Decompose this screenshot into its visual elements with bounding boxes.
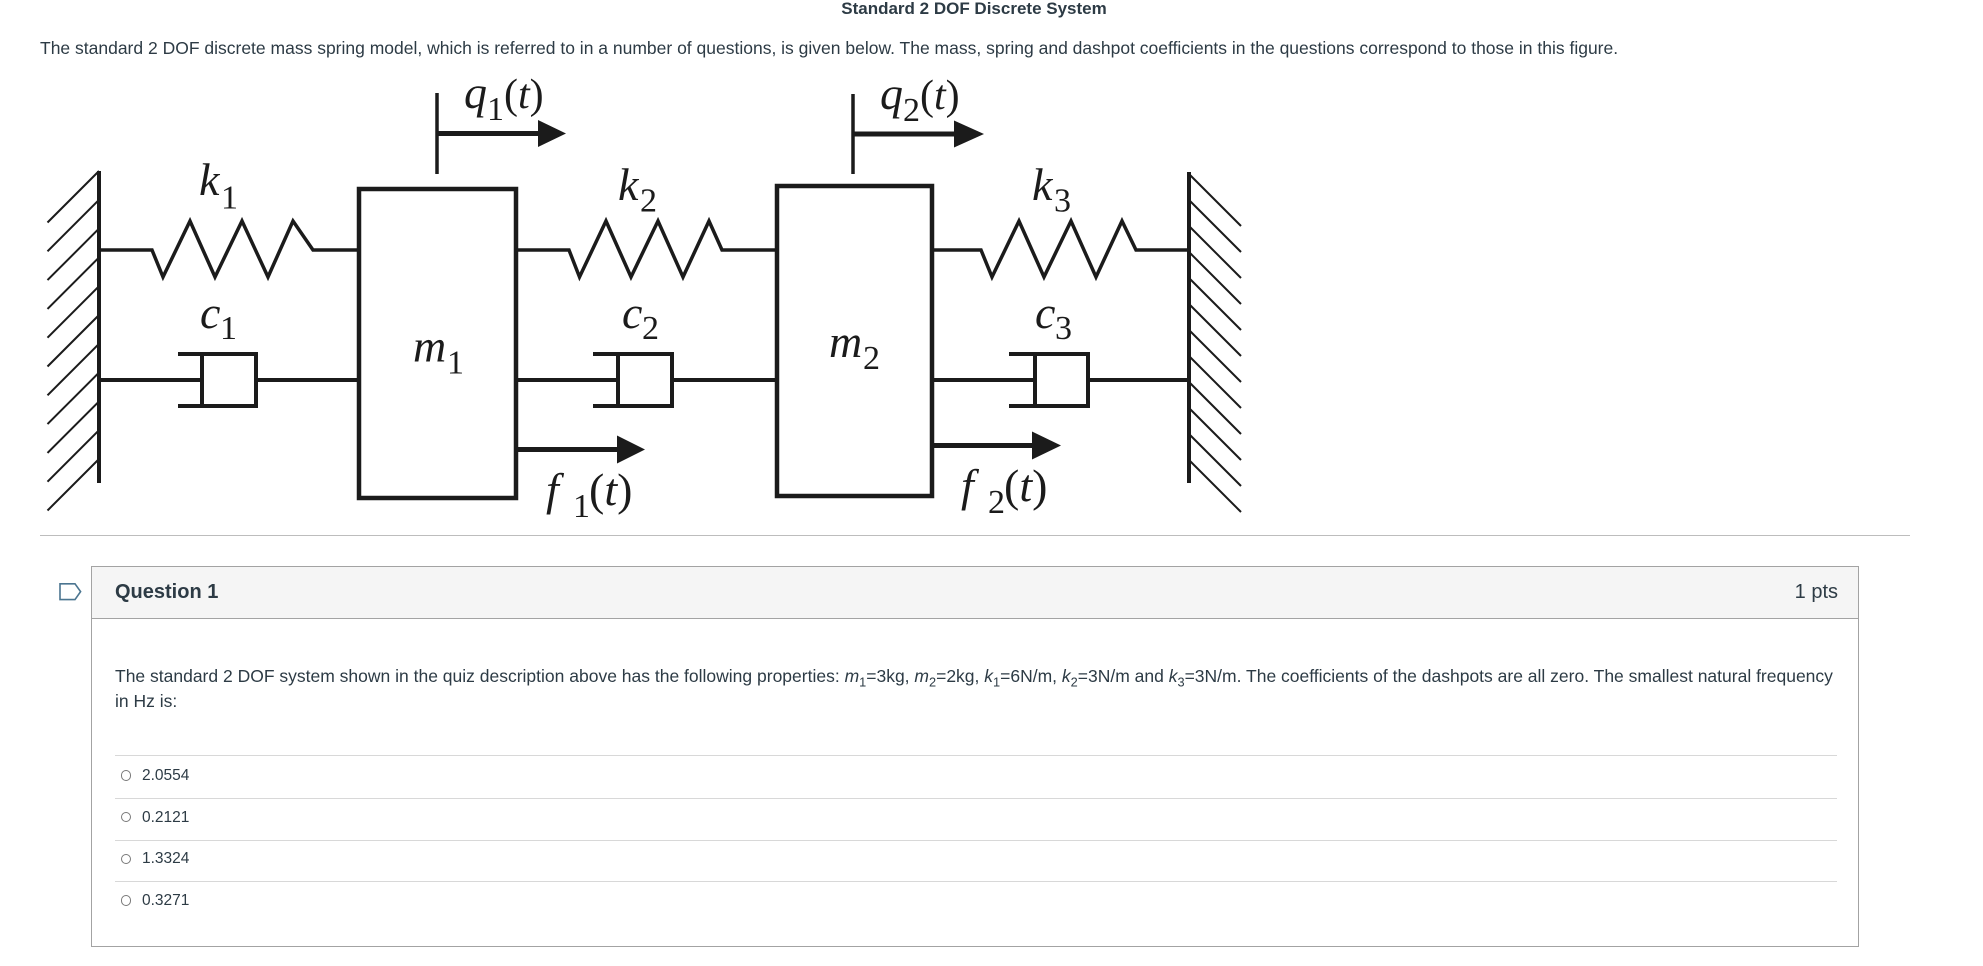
dashpot c1 [101, 352, 359, 408]
svg-text:c: c [622, 287, 642, 338]
svg-text:k: k [199, 154, 221, 205]
label f2(t) [961, 460, 1047, 521]
svg-text:1: 1 [447, 345, 464, 382]
svg-text:1: 1 [221, 180, 238, 217]
svg-text:f: f [546, 464, 565, 515]
label q1(t) [464, 67, 544, 128]
section divider [40, 535, 1910, 536]
svg-text:3: 3 [1055, 310, 1072, 347]
spring k3 [932, 221, 1189, 277]
quiz description paragraph [40, 36, 1940, 61]
f2 force arrow [934, 443, 1035, 448]
mass m2 [777, 186, 932, 496]
question panel [91, 566, 1859, 947]
label f1(t) [546, 464, 632, 525]
q1 arrow [437, 131, 541, 136]
figure: 2 DOF mass-spring-dashpot diagram [30, 70, 1270, 540]
svg-text:(t): (t) [504, 72, 544, 118]
svg-text:1: 1 [220, 310, 237, 347]
q2 arrow [853, 132, 957, 137]
svg-text:k: k [1032, 159, 1054, 210]
svg-text:1: 1 [573, 488, 590, 525]
svg-text:3: 3 [1054, 183, 1071, 220]
spring k2 [516, 221, 777, 277]
dashpot c2 [516, 352, 777, 408]
right wall hatching [1189, 174, 1241, 512]
quiz title [0, 0, 1948, 19]
label c3 [1035, 287, 1072, 347]
svg-text:2: 2 [903, 92, 920, 129]
right wall [1187, 172, 1191, 483]
header [92, 567, 1858, 619]
q2 displacement tick [851, 94, 855, 174]
label m2 [829, 316, 880, 377]
svg-text:q: q [880, 70, 903, 119]
svg-text:2: 2 [988, 484, 1005, 521]
dashpot c3 [932, 352, 1189, 408]
svg-text:(t): (t) [920, 73, 960, 119]
answers [115, 755, 1837, 756]
svg-text:k: k [618, 159, 640, 210]
svg-text:1: 1 [487, 91, 504, 128]
svg-text:c: c [1035, 287, 1055, 338]
label k3 [1032, 159, 1071, 220]
svg-text:(t): (t) [589, 464, 632, 515]
label k1 [199, 154, 238, 217]
left wall [97, 171, 101, 483]
svg-text:(t): (t) [1004, 460, 1047, 511]
svg-text:c: c [200, 287, 220, 338]
svg-text:2: 2 [863, 340, 880, 377]
svg-text:2: 2 [642, 310, 659, 347]
svg-text:m: m [829, 316, 862, 367]
svg-text:m: m [413, 321, 446, 372]
label q2(t) [880, 68, 960, 129]
spring k1 [99, 221, 359, 277]
label c2 [622, 287, 659, 347]
question text [115, 664, 1905, 714]
mass m1 [359, 189, 516, 498]
q1 displacement tick [435, 93, 439, 174]
label k2 [618, 159, 657, 220]
f1 force arrow [518, 447, 620, 452]
flag/bookmark icon [59, 583, 82, 601]
label m1 [413, 321, 464, 382]
label c1 [200, 287, 237, 347]
svg-text:f: f [961, 460, 980, 511]
left wall hatching [48, 171, 100, 511]
svg-text:q: q [464, 70, 487, 118]
svg-text:2: 2 [640, 183, 657, 220]
